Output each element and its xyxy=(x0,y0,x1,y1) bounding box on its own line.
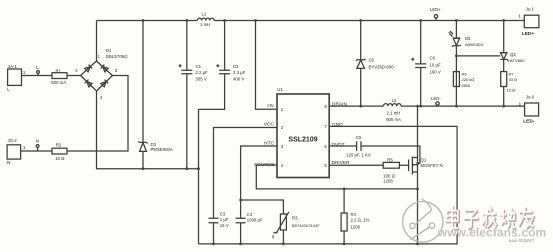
wire NTC branch to R3 xyxy=(241,200,284,244)
svg-text:400 V: 400 V xyxy=(233,76,244,81)
svg-text:C3: C3 xyxy=(220,211,226,216)
svg-text:1008 pF: 1008 pF xyxy=(247,218,263,223)
wire D5 to Q2 gate xyxy=(456,55,500,57)
connector JA-1 xyxy=(7,64,26,93)
wire C1 column xyxy=(186,21,188,169)
svg-text:SSL2109: SSL2109 xyxy=(288,137,317,144)
svg-text:220 kΩ: 220 kΩ xyxy=(462,77,475,82)
svg-text:Js-0: Js-0 xyxy=(526,94,535,99)
svg-text:10 µF: 10 µF xyxy=(430,63,441,68)
wire NTC to C4 xyxy=(241,146,277,244)
thermistor R3 NTC xyxy=(272,212,320,240)
svg-text:N: N xyxy=(7,160,11,166)
svg-text:R3: R3 xyxy=(292,215,298,220)
capacitor C2 3.3uF 400V xyxy=(216,64,245,81)
svg-text:BYV26D-600: BYV26D-600 xyxy=(369,64,395,69)
svg-text:SOURCE: SOURCE xyxy=(254,162,275,168)
resistor R5 100 ohm xyxy=(383,158,399,184)
svg-text:120 pF, 1 KV: 120 pF, 1 KV xyxy=(346,153,371,158)
junctions on top bus rail xyxy=(142,19,506,22)
svg-text:HV: HV xyxy=(267,103,274,109)
svg-text:L2: L2 xyxy=(392,98,397,103)
node L net label xyxy=(36,65,39,76)
bridge rectifier D1 DBLS706G xyxy=(75,48,128,100)
svg-text:1 mH: 1 mH xyxy=(200,22,210,27)
op-amp U1 SSL2109 xyxy=(254,87,350,178)
svg-text:W8953DG: W8953DG xyxy=(465,42,484,47)
svg-text:0805: 0805 xyxy=(462,83,472,88)
svg-text:U1: U1 xyxy=(277,87,283,92)
wire bridge negative return xyxy=(97,91,199,169)
svg-text:Js-1: Js-1 xyxy=(526,7,535,12)
svg-text:Q2: Q2 xyxy=(510,52,516,57)
svg-text:DVDT: DVDT xyxy=(332,142,345,148)
wire DRIVER to gate xyxy=(329,164,408,166)
svg-text:PMSE900A: PMSE900A xyxy=(151,147,173,152)
svg-text:C1: C1 xyxy=(196,64,202,69)
wire top rail xyxy=(97,20,525,22)
svg-text:C4: C4 xyxy=(247,212,253,217)
inductor L1 1 mH xyxy=(198,11,214,27)
junctions on rectifier return wire xyxy=(142,167,200,170)
capacitor C5 120 pF 1 KV xyxy=(346,135,371,158)
svg-text:JA-1: JA-1 xyxy=(8,64,17,69)
svg-text:BTV860: BTV860 xyxy=(510,58,525,63)
junctions on drain LED- wire xyxy=(359,105,505,108)
wire D2 column xyxy=(360,21,362,107)
capacitor C3 1uF 16V xyxy=(209,211,229,228)
inductor L2 2.1 mH 900 mA xyxy=(384,98,402,122)
wire D5 column xyxy=(455,21,457,107)
svg-text:1: 1 xyxy=(519,102,522,108)
svg-text:B57440V2104F: B57440V2104F xyxy=(292,223,320,228)
watermark chinese characters xyxy=(447,206,535,230)
connector Js-0 xyxy=(519,94,539,124)
svg-text:D5: D5 xyxy=(465,36,471,41)
node N net label xyxy=(36,139,40,152)
fuse R1 500 mA xyxy=(51,68,67,85)
svg-text:Q1: Q1 xyxy=(421,158,427,163)
svg-text:R7: R7 xyxy=(509,71,515,76)
svg-text:500 mA: 500 mA xyxy=(51,80,66,85)
wire VCC to C3 xyxy=(214,128,278,244)
transistor Q1 MOSFET N xyxy=(409,157,443,175)
svg-text:C2: C2 xyxy=(233,64,239,69)
junctions on ground rail xyxy=(212,243,419,246)
svg-text:DRIVER: DRIVER xyxy=(332,160,351,166)
transistor Q2 BTV860 xyxy=(500,52,525,63)
wire HV xyxy=(256,21,278,110)
svg-text:N: N xyxy=(36,139,40,145)
svg-text:C6: C6 xyxy=(430,55,436,60)
wire ground loop bottom rail xyxy=(199,126,458,243)
svg-text:900 mA: 900 mA xyxy=(386,117,401,122)
svg-text:L1: L1 xyxy=(202,11,207,16)
svg-text:16 V: 16 V xyxy=(220,223,229,228)
svg-text:1206: 1206 xyxy=(383,178,393,183)
wire Q2 R7 column xyxy=(503,21,505,107)
svg-text:LED-: LED- xyxy=(523,119,535,125)
junction D5 to Q2 gate xyxy=(455,55,458,58)
wire L input to bridge xyxy=(22,75,81,77)
junctions on source sense rail xyxy=(343,188,419,191)
svg-text:2.2 Ω, 1%: 2.2 Ω, 1% xyxy=(351,217,370,222)
svg-text:2.1 mH: 2.1 mH xyxy=(387,111,401,116)
capacitor C4 1000 pF xyxy=(236,212,263,223)
svg-text:D1: D1 xyxy=(106,48,112,53)
svg-text:305 V: 305 V xyxy=(196,76,207,81)
svg-text:D3: D3 xyxy=(151,142,157,147)
svg-text:10 Ω: 10 Ω xyxy=(55,156,65,161)
svg-text:R6: R6 xyxy=(462,71,468,76)
svg-text:1: 1 xyxy=(23,145,26,151)
svg-text:D2: D2 xyxy=(369,58,375,63)
svg-text:C5: C5 xyxy=(356,135,362,140)
diode D2 BYV26D-600 xyxy=(356,58,394,70)
capacitor C6 10uF 160V xyxy=(411,55,441,74)
junction C5 to switch node xyxy=(416,162,419,165)
svg-text:1 µF: 1 µF xyxy=(220,217,229,222)
svg-text:R2: R2 xyxy=(56,142,62,147)
wire Q1 switch node xyxy=(417,106,419,244)
wire bridge top to rail xyxy=(96,21,98,62)
node LED+ net label xyxy=(430,7,441,21)
svg-text:1: 1 xyxy=(23,70,26,76)
resistor R7 33 ohm xyxy=(501,71,517,92)
svg-text:JG-2: JG-2 xyxy=(8,138,18,143)
svg-text:160 V: 160 V xyxy=(430,70,441,75)
wire R4 leads xyxy=(343,189,345,244)
svg-text:LED+: LED+ xyxy=(430,7,441,12)
diode D3 PMSE900A xyxy=(138,141,172,152)
svg-text:MOSFET N: MOSFET N xyxy=(421,163,443,168)
diode D5 W8953DG xyxy=(448,31,484,47)
wire SOURCE rail xyxy=(256,165,417,189)
svg-text:LED+: LED+ xyxy=(522,31,535,37)
wire DVDT C5 xyxy=(329,146,420,163)
svg-text:R4: R4 xyxy=(351,212,357,217)
connector JG-2 xyxy=(7,138,26,166)
wire D3 column xyxy=(142,21,144,169)
node LED- net label xyxy=(431,96,441,105)
svg-text:33 Ω: 33 Ω xyxy=(509,77,518,82)
connector Js-1 xyxy=(518,7,539,37)
capacitor C1 2.2uF 305V xyxy=(179,64,209,81)
svg-text:2.2 µF: 2.2 µF xyxy=(196,70,209,75)
resistor R4 2.2 ohm 1% xyxy=(341,212,370,231)
wire N input to bridge pin 3 xyxy=(21,76,128,152)
wire DRAIN LED- xyxy=(329,105,524,107)
svg-text:L: L xyxy=(7,87,10,93)
svg-text:1: 1 xyxy=(518,14,521,20)
svg-text:3.3 µF: 3.3 µF xyxy=(233,70,246,75)
resistor R6 220k xyxy=(453,71,474,88)
junction NTC branch node xyxy=(239,199,242,202)
svg-text:GND: GND xyxy=(332,122,343,128)
resistor R2 10 ohm xyxy=(52,142,67,161)
wire C6 column xyxy=(420,21,422,107)
svg-text:aaa-002267: aaa-002267 xyxy=(509,238,535,243)
svg-text:DBLS706G: DBLS706G xyxy=(106,54,128,59)
svg-text:1218: 1218 xyxy=(507,88,517,93)
svg-text:DRAIN: DRAIN xyxy=(332,101,347,107)
wire C2 column xyxy=(199,21,225,244)
svg-text:VCC: VCC xyxy=(264,122,275,128)
watermark logo circle xyxy=(403,199,443,242)
svg-text:LED-: LED- xyxy=(431,96,441,101)
svg-text:NTC: NTC xyxy=(264,141,274,147)
svg-text:1206: 1206 xyxy=(351,224,361,229)
